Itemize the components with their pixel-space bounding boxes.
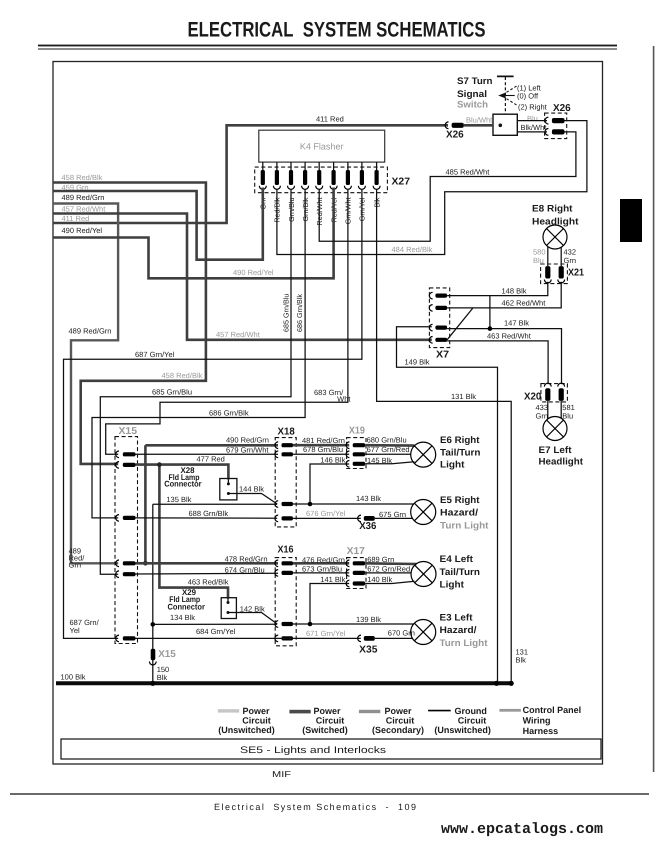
connector X17	[346, 546, 366, 589]
connector X26 inline (harness side)	[445, 122, 464, 141]
connector X7	[429, 288, 449, 361]
connector X29 Fld Lamp	[168, 588, 237, 619]
lamp E8 Right Headlight	[532, 204, 579, 250]
wires K4 to X27 pins	[263, 162, 377, 170]
svg-text:411 Red: 411 Red	[62, 214, 90, 223]
connector X35 inline	[358, 635, 378, 656]
legend control panel harness	[499, 705, 581, 736]
svg-text:Turn Light: Turn Light	[440, 638, 489, 649]
wire 686 Grn/Blk	[92, 189, 305, 518]
wire 680 Grn/Blu to E6 (unswitched)	[365, 444, 414, 447]
label 131 Blk (bottom)	[516, 648, 529, 665]
svg-text:462 Red/Wht: 462 Red/Wht	[502, 299, 547, 308]
wire 476 Red/Grn (unswitched)	[293, 562, 349, 565]
svg-text:Connector: Connector	[168, 603, 206, 612]
svg-text:134 Blk: 134 Blk	[170, 613, 195, 622]
svg-text:673 Grn/Blu: 673 Grn/Blu	[302, 565, 342, 574]
svg-text:Blu/Wht: Blu/Wht	[466, 116, 493, 125]
svg-text:Blk/Wht: Blk/Wht	[521, 123, 548, 132]
lamp E4 Left Tail/Turn Light	[411, 554, 480, 590]
connector X26 (to switch harness)	[545, 103, 572, 139]
lamp E6 Right Tail/Turn Light	[411, 435, 481, 471]
wire 142 Blk	[228, 613, 277, 625]
svg-text:674 Grn/Blu: 674 Grn/Blu	[225, 565, 265, 574]
node 134 junction	[151, 622, 156, 627]
wire 146 Blk	[310, 464, 349, 504]
wires X20 to E7	[548, 401, 561, 419]
svg-text:490 Red/Yel: 490 Red/Yel	[233, 268, 274, 277]
wire 463 Red/Blk branch (unswitched)	[159, 465, 228, 599]
svg-text:X7: X7	[436, 350, 449, 361]
svg-text:E7 Left: E7 Left	[539, 445, 573, 456]
switch S7 body	[493, 114, 517, 135]
wire 145 Blk to E6	[365, 462, 414, 464]
wire 462 Red/Wht	[447, 282, 561, 340]
legend ground circuit	[428, 706, 491, 735]
page tab black mark	[620, 199, 642, 242]
svg-text:485 Red/Wht: 485 Red/Wht	[446, 168, 491, 177]
svg-text:X17: X17	[347, 546, 366, 557]
svg-text:Yel: Yel	[70, 626, 80, 635]
svg-text:X26: X26	[553, 103, 571, 114]
svg-text:143 Blk: 143 Blk	[356, 494, 381, 503]
svg-text:Hazard/: Hazard/	[440, 508, 478, 519]
wire 140 Blk to E4	[365, 581, 415, 583]
svg-text:S7 Turn: S7 Turn	[457, 76, 493, 87]
node ground junctions	[150, 681, 514, 686]
svg-text:X19: X19	[349, 426, 365, 437]
svg-text:E5 Right: E5 Right	[440, 495, 480, 506]
wire 672 Grn/Red to E4	[365, 572, 411, 574]
svg-text:Light: Light	[440, 460, 465, 471]
svg-text:Power: Power	[313, 706, 341, 716]
svg-text:Control Panel: Control Panel	[523, 705, 582, 715]
svg-text:Ground: Ground	[454, 706, 487, 716]
svg-text:676 Grn/Yel: 676 Grn/Yel	[306, 509, 346, 518]
svg-text:Grn: Grn	[536, 411, 549, 420]
wire 687 Grn/Yel	[64, 189, 362, 638]
svg-text:E4 Left: E4 Left	[440, 554, 474, 565]
svg-text:Grn: Grn	[564, 256, 577, 265]
svg-text:(Unswitched): (Unswitched)	[218, 725, 275, 735]
label 687 Grn/Yel (at X15)	[70, 618, 100, 635]
labels X19 to E6	[367, 435, 410, 464]
svg-text:490 Red/Yel: 490 Red/Yel	[62, 226, 103, 235]
svg-text:459 Grn: 459 Grn	[62, 183, 89, 192]
svg-text:X36: X36	[359, 521, 377, 532]
svg-text:Power: Power	[384, 706, 412, 716]
node 143/146 junction	[308, 502, 313, 507]
wire 484 Red/Blk	[277, 121, 587, 255]
svg-text:E6 Right: E6 Right	[440, 435, 480, 446]
labels rows X15-X16	[188, 554, 268, 586]
wire 685 Grn/Blu	[100, 189, 291, 574]
svg-text:686 Grn/Blk: 686 Grn/Blk	[209, 409, 249, 418]
wire 684/671 Grn/Yel row	[136, 637, 361, 639]
connector X15	[115, 426, 138, 644]
svg-text:489 Red/Grn: 489 Red/Grn	[69, 327, 112, 336]
svg-text:139 Blk: 139 Blk	[356, 615, 381, 624]
svg-text:140 Blk: 140 Blk	[367, 575, 392, 584]
svg-text:X26: X26	[446, 130, 464, 141]
lamp E5 Right Hazard/Turn Light	[411, 495, 490, 531]
connector X16	[275, 545, 296, 646]
svg-text:Circuit: Circuit	[386, 715, 415, 725]
wire 678 Grn/Blu	[293, 453, 349, 455]
svg-text:675 Grn: 675 Grn	[379, 510, 406, 519]
svg-text:135 Blk: 135 Blk	[166, 495, 191, 504]
wire 411 Red (switched power)	[53, 125, 448, 223]
wire 674 Grn/Blu row	[136, 572, 279, 575]
svg-text:680 Grn/Blu: 680 Grn/Blu	[367, 435, 407, 444]
connector X19	[346, 426, 366, 469]
svg-text:(Unswitched): (Unswitched)	[434, 725, 491, 735]
svg-text:www.epcatalogs.com: www.epcatalogs.com	[441, 821, 603, 838]
wire 477 Red (unswitched)	[136, 465, 229, 480]
svg-text:Circuit: Circuit	[242, 715, 271, 725]
svg-text:Tail/Turn: Tail/Turn	[440, 567, 481, 578]
wire S7 to X26 pin1	[517, 120, 547, 122]
svg-text:457 Red/Wht: 457 Red/Wht	[216, 330, 261, 339]
wire 463 Red/Wht	[447, 341, 548, 384]
svg-text:149 Blk: 149 Blk	[405, 358, 430, 367]
svg-text:457 Red/Wht: 457 Red/Wht	[62, 205, 107, 214]
labels X17 to E4	[367, 555, 410, 584]
svg-text:Circuit: Circuit	[316, 715, 345, 725]
svg-text:ELECTRICAL SYSTEM SCHEMATICS: ELECTRICAL SYSTEM SCHEMATICS	[188, 19, 486, 42]
svg-text:X21: X21	[568, 268, 584, 279]
svg-text:146 Blk: 146 Blk	[320, 455, 345, 464]
switch S7 labels	[457, 76, 493, 111]
svg-text:688 Grn/Blk: 688 Grn/Blk	[189, 509, 229, 518]
lamp E7 Left Headlight	[539, 417, 584, 468]
svg-text:484 Red/Blk: 484 Red/Blk	[392, 245, 433, 254]
svg-text:463 Red/Blk: 463 Red/Blk	[188, 578, 229, 587]
svg-text:(0) Off: (0) Off	[517, 91, 539, 100]
wire 485 Red/Wht	[319, 132, 576, 241]
wire 149 Blk	[397, 327, 498, 684]
wires E8 to X21	[548, 247, 561, 266]
svg-text:X15: X15	[158, 649, 176, 660]
switch S7 position labels	[517, 83, 548, 111]
wire 457 Red/Wht (switched power)	[53, 214, 432, 340]
connector X36 inline	[358, 515, 377, 532]
legend power circuit unswitched	[218, 706, 275, 735]
svg-text:481 Red/Grn: 481 Red/Grn	[302, 436, 345, 445]
svg-text:Harness: Harness	[523, 726, 559, 736]
wire 134 Blk	[153, 623, 277, 625]
node 490/478 junction	[143, 561, 148, 566]
svg-text:X27: X27	[392, 177, 411, 188]
svg-text:490 Red/Grn: 490 Red/Grn	[226, 436, 269, 445]
svg-text:685 Grn/Blu: 685 Grn/Blu	[152, 388, 192, 397]
label 489 Red/Grn (at X15)	[69, 547, 86, 570]
svg-text:Wht: Wht	[337, 395, 351, 404]
node 139/141 junction	[308, 622, 313, 627]
connector X18	[275, 427, 296, 527]
svg-text:458 Red/Blk: 458 Red/Blk	[162, 371, 203, 380]
wire 141 Blk	[310, 584, 349, 625]
svg-text:Wiring: Wiring	[523, 715, 551, 725]
node 147/148 junction	[488, 326, 493, 331]
svg-text:148 Blk: 148 Blk	[502, 286, 527, 295]
svg-text:684 Grn/Yel: 684 Grn/Yel	[196, 627, 236, 636]
svg-text:K4 Flasher: K4 Flasher	[300, 142, 344, 152]
labels rows X16-X17	[196, 555, 381, 638]
svg-text:141 Blk: 141 Blk	[320, 575, 345, 584]
wire 673 Grn/Blu	[293, 572, 349, 574]
svg-text:Headlight: Headlight	[539, 457, 584, 468]
wire 148 Blk	[447, 282, 548, 296]
wire S7 to X26 pin2	[517, 131, 547, 133]
wire 679 Grn/Wht row	[136, 453, 279, 455]
svg-text:677 Grn/Red: 677 Grn/Red	[367, 445, 410, 454]
SE5 box	[61, 739, 601, 759]
wire 459 Grn (switched power)	[53, 188, 263, 260]
svg-text:411 Red: 411 Red	[316, 115, 344, 124]
svg-text:X16: X16	[278, 545, 294, 556]
svg-text:E8 Right: E8 Right	[532, 204, 573, 215]
connector X28 Fld Lamp	[164, 466, 237, 500]
wire 675 Grn to E5	[375, 517, 413, 519]
svg-text:489 Red/Grn: 489 Red/Grn	[62, 193, 105, 202]
svg-text:477 Red: 477 Red	[197, 455, 225, 464]
svg-text:Blu: Blu	[527, 114, 538, 123]
relay K4 Flasher	[259, 130, 385, 162]
wire 490 Red/Yel (switched power)	[53, 188, 334, 279]
svg-text:Switch: Switch	[457, 100, 488, 111]
svg-text:147 Blk: 147 Blk	[504, 319, 529, 328]
svg-text:X18: X18	[278, 427, 296, 438]
connector X21	[541, 264, 585, 284]
svg-text:145 Blk: 145 Blk	[367, 456, 392, 465]
labels left harness entries	[62, 173, 107, 235]
svg-text:SE5 - Lights and Interlocks: SE5 - Lights and Interlocks	[240, 745, 386, 756]
svg-text:100 Blk: 100 Blk	[61, 673, 86, 682]
connector X20	[524, 383, 567, 402]
connector X15 inline (150 Blk)	[149, 649, 176, 665]
wire 683 Grn/Wht	[106, 189, 348, 454]
svg-text:671 Grn/Yel: 671 Grn/Yel	[306, 629, 346, 638]
svg-text:X20: X20	[524, 392, 542, 403]
svg-text:X35: X35	[359, 645, 378, 656]
svg-text:678 Grn/Blu: 678 Grn/Blu	[303, 445, 343, 454]
node 477 junction	[157, 462, 162, 467]
svg-text:131 Blk: 131 Blk	[451, 392, 476, 401]
labels row1 left	[197, 436, 270, 464]
wire 131 Blk	[377, 189, 512, 683]
svg-text:X15: X15	[119, 426, 138, 437]
svg-text:(Switched): (Switched)	[302, 725, 348, 735]
svg-text:476 Red/Grn: 476 Red/Grn	[302, 555, 345, 564]
svg-text:679 Grn/Wht: 679 Grn/Wht	[226, 446, 269, 455]
svg-text:458 Red/Blk: 458 Red/Blk	[62, 173, 103, 182]
switch S7 position pointer	[498, 86, 517, 106]
svg-text:144 Blk: 144 Blk	[239, 485, 264, 494]
labels 580 Blu / 432 Grn	[533, 248, 576, 266]
wire 143 Blk row	[293, 503, 414, 505]
wire 144 Blk	[228, 494, 277, 505]
svg-text:478 Red/Grn: 478 Red/Grn	[225, 554, 268, 563]
wire 688 Grn/Blk row	[136, 517, 278, 519]
labels X7 area	[405, 286, 547, 366]
main border frame	[53, 62, 603, 765]
wire 489 Red/Grn (secondary power)	[53, 204, 118, 564]
svg-text:Connector: Connector	[164, 480, 202, 489]
label 683 Grn/Wht	[314, 388, 351, 404]
wire 676 Grn/Yel row	[293, 517, 361, 519]
svg-text:Signal: Signal	[457, 89, 487, 100]
svg-text:Blk: Blk	[157, 673, 168, 682]
svg-text:Blk: Blk	[516, 656, 527, 665]
wire 139 Blk row	[293, 623, 414, 625]
svg-text:(Secondary): (Secondary)	[372, 725, 424, 735]
svg-text:Circuit: Circuit	[458, 715, 487, 725]
wire 135/134/150 Blk vertical	[153, 504, 277, 683]
svg-text:Power: Power	[242, 706, 270, 716]
switch S7 pivot	[497, 76, 514, 114]
svg-text:685 Grn/Blu: 685 Grn/Blu	[281, 294, 290, 332]
wire 481 Red/Grn (unswitched)	[293, 444, 349, 447]
ground bus 100 Blk	[56, 681, 513, 685]
wire 490 Red/Grn row (unswitched)	[145, 445, 278, 563]
wire 458 Red/Blk (unswitched power)	[53, 183, 206, 464]
legend power circuit switched	[289, 706, 347, 735]
wire 670 Grn to E3	[375, 637, 413, 639]
right page edge line	[653, 46, 655, 772]
svg-text:689 Grn: 689 Grn	[367, 555, 394, 564]
svg-text:E3 Left: E3 Left	[440, 613, 474, 624]
wire 677 Grn/Red to E6	[365, 453, 411, 455]
labels X27 pin wire colors	[259, 197, 382, 225]
svg-text:MIF: MIF	[272, 769, 291, 779]
svg-text:Hazard/: Hazard/	[440, 625, 477, 636]
wire 147 Blk	[447, 329, 561, 384]
svg-text:(2) Right: (2) Right	[518, 102, 548, 111]
lamp E3 Left Hazard/Turn Light	[411, 613, 489, 649]
labels rows X18-X19	[166, 436, 381, 518]
labels 685/686 vertical	[281, 294, 304, 332]
title double rule	[38, 45, 617, 50]
wire Blu/Wht segment into S7	[464, 124, 493, 127]
wire 689 Grn to E4 (unswitched)	[365, 562, 416, 565]
svg-text:686 Grn/Blk: 686 Grn/Blk	[295, 294, 304, 332]
svg-text:Light: Light	[440, 579, 465, 590]
labels 134/142	[170, 605, 265, 623]
svg-text:Grn: Grn	[69, 561, 82, 570]
svg-text:687 Grn/Yel: 687 Grn/Yel	[135, 350, 175, 359]
labels 433 Grn / 581 Blu	[536, 403, 575, 421]
wire 148/147 tie	[489, 296, 491, 329]
svg-text:Blu: Blu	[562, 411, 573, 420]
connector X27	[255, 167, 411, 193]
svg-text:672 Grn/Red: 672 Grn/Red	[367, 565, 410, 574]
label 150 Blk	[157, 665, 170, 682]
legend power circuit secondary	[359, 706, 424, 735]
svg-text:Headlight: Headlight	[532, 217, 579, 228]
svg-text:142 Blk: 142 Blk	[240, 605, 265, 614]
svg-text:Tail/Turn: Tail/Turn	[440, 448, 481, 459]
svg-text:463 Red/Wht: 463 Red/Wht	[487, 332, 532, 341]
footer rule	[10, 793, 649, 795]
svg-text:Turn Light: Turn Light	[440, 520, 489, 531]
wire 478 Red/Grn row (unswitched)	[136, 562, 279, 565]
